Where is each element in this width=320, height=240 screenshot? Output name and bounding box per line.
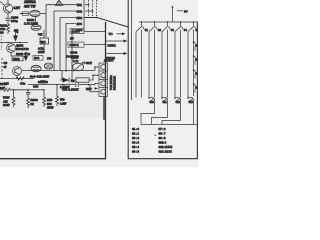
svg-text:7W: 7W: [47, 57, 52, 61]
svg-text:S6 : 5: S6 : 5: [132, 150, 140, 154]
svg-text:REF: REF: [86, 87, 92, 91]
wire: [84, 44, 106, 46]
electrolytic C3 (top view): [31, 65, 41, 71]
switch S13 (bottom row): [187, 97, 189, 99]
svg-text:R869 4.7k: R869 4.7k: [16, 52, 30, 56]
switch S8: [193, 69, 195, 71]
svg-text:9V: 9V: [184, 10, 188, 14]
dashed net line: [92, 0, 94, 18]
wire bus elbow 1: [46, 5, 76, 37]
potentiometer R636: [72, 63, 83, 71]
svg-text:S4 : 3: S4 : 3: [132, 141, 140, 145]
svg-text:1.2/16V: 1.2/16V: [60, 85, 70, 89]
svg-text:2SC1740: 2SC1740: [16, 47, 29, 51]
transistor Q861: [13, 67, 22, 76]
svg-text:S10: S10: [150, 101, 155, 104]
svg-text:S13: S13: [189, 101, 194, 104]
svg-text:ST: ST: [70, 37, 74, 41]
wire resistor row: [0, 78, 34, 80]
dashed net line: [88, 0, 90, 18]
svg-text:1/2W: 1/2W: [47, 106, 54, 110]
svg-text:B861: B861: [13, 57, 20, 61]
svg-text:SeG 4.7k 1/2W: SeG 4.7k 1/2W: [30, 75, 49, 79]
svg-text:240: 240: [4, 82, 9, 86]
svg-text:S2 : 1: S2 : 1: [132, 132, 140, 136]
switch S2: [154, 21, 156, 23]
resistor R58 (vertical): [43, 90, 46, 107]
svg-text:S10: 9: S10: 9: [159, 141, 167, 145]
electrolytic C2 (top view): [31, 25, 41, 31]
switch S1: [141, 21, 143, 23]
wire: [43, 30, 45, 52]
svg-text:R6: R6: [0, 31, 4, 35]
scan tint: [0, 0, 104, 118]
svg-text:270p: 270p: [11, 19, 18, 23]
svg-text:S6: S6: [195, 43, 198, 47]
electrolytic C4 (top view): [44, 63, 52, 69]
dashed net line: [96, 0, 98, 18]
wire cap row: [28, 83, 99, 84]
switch S10 (bottom row): [148, 97, 150, 99]
wire bus elbow 4: [66, 24, 76, 73]
wire: [103, 97, 105, 121]
svg-text:S3 : 2: S3 : 2: [132, 136, 140, 140]
svg-text:DESK: DESK: [108, 44, 116, 48]
wire pot feed: [22, 67, 99, 71]
resistor R861: [76, 78, 89, 82]
svg-text:B84: B84: [34, 56, 39, 60]
wire diode row: [60, 75, 99, 80]
filled arrow (off page): [24, 56, 29, 62]
resistor R640: [0, 88, 12, 91]
switch S11 (bottom row): [161, 97, 163, 99]
top bus: [139, 21, 197, 23]
svg-text:S5 : 4: S5 : 4: [132, 145, 140, 149]
svg-text:VD1: VD1: [77, 3, 83, 7]
switch S5: [193, 21, 195, 23]
svg-text:1/4W: 1/4W: [3, 103, 10, 107]
svg-text:S12: S12: [176, 101, 181, 104]
wire: [20, 13, 46, 15]
svg-text:FROM BAR: FROM BAR: [113, 76, 117, 90]
wire: [84, 31, 106, 33]
svg-text:560: 560: [60, 98, 65, 102]
wire: [11, 53, 17, 79]
capacitor C56: [76, 82, 78, 87]
svg-text:S1: S1: [145, 28, 149, 32]
svg-text:S9 : 8: S9 : 8: [159, 136, 167, 140]
svg-text:S11: S11: [163, 101, 168, 104]
wire: [85, 10, 93, 12]
switch S4: [180, 21, 182, 23]
svg-text:-: -: [155, 134, 156, 137]
svg-text:S12: 12CH: S12: 12CH: [159, 150, 172, 154]
wire: [30, 89, 44, 91]
switch S3: [167, 21, 169, 23]
diode D860: [63, 78, 70, 83]
svg-text:SAFETY: SAFETY: [104, 60, 114, 63]
svg-text:S7 : 6: S7 : 6: [159, 127, 167, 131]
vertical bus line: [83, 0, 85, 32]
svg-text:C885 K: C885 K: [70, 43, 79, 47]
svg-text:1W: 1W: [14, 29, 19, 33]
svg-text:1.2: 1.2: [73, 59, 78, 63]
svg-text:AF4: AF4: [77, 22, 83, 26]
switch S6: [193, 41, 195, 43]
wire: [35, 17, 37, 25]
switch S12 (bottom row): [174, 97, 176, 99]
svg-text:1.2W: 1.2W: [60, 101, 67, 105]
left edge stub: [1, 58, 3, 78]
capacitor C230: [6, 18, 11, 24]
resistor R633 (vertical): [27, 98, 30, 108]
sheet border (left board, right edge and bottom edge): [0, 22, 106, 159]
supply entry wire: [172, 7, 174, 22]
svg-text:TW: TW: [38, 33, 43, 37]
svg-text:S8: S8: [195, 71, 198, 75]
signal arrow FROM: [106, 53, 124, 55]
pin 1: [101, 65, 106, 70]
routing nest line 2: [152, 118, 168, 125]
component stack box: [40, 38, 49, 44]
svg-text:S2: S2: [158, 28, 162, 32]
svg-text:S7: S7: [195, 57, 198, 61]
pin 2: [101, 73, 106, 78]
board edge funnel top: [84, 18, 128, 28]
svg-text:S3: S3: [171, 28, 175, 32]
svg-text:42V 7W: 42V 7W: [24, 4, 35, 8]
switch S7: [193, 55, 195, 57]
routing nest line 3: [162, 121, 181, 125]
svg-text:47: 47: [4, 65, 8, 69]
svg-text:C5: C5: [71, 79, 75, 83]
svg-text:S11: MUTE: S11: MUTE: [159, 145, 173, 149]
svg-text:4.8V: 4.8V: [14, 6, 21, 10]
pin 3: [101, 81, 106, 86]
svg-text:TO: TO: [109, 32, 114, 36]
svg-text:2S1748: 2S1748: [38, 80, 48, 84]
svg-text:H.OUT: H.OUT: [72, 29, 81, 33]
svg-text:SC2: SC2: [77, 9, 83, 13]
wire bus elbow 2: [54, 11, 76, 71]
svg-text:S9: S9: [195, 85, 198, 89]
svg-text:KB3: KB3: [77, 16, 83, 20]
wire bus elbow 3: [60, 18, 76, 71]
svg-text:S1 : 0: S1 : 0: [132, 127, 140, 131]
boxed label: [12, 56, 23, 61]
svg-text:C3x: C3x: [20, 82, 26, 86]
svg-text:FOR EXTRA: FOR EXTRA: [109, 75, 113, 90]
routing nest line 1: [141, 114, 155, 125]
svg-text:C36: C36: [33, 85, 39, 89]
boxed label KEY: [68, 42, 84, 47]
unit inner border: [131, 0, 133, 100]
edge connector P801: [99, 63, 108, 97]
wire: [0, 0, 8, 18]
filled arrow (off page): [13, 36, 18, 42]
warning triangle: [55, 0, 62, 5]
signal arrow DESK: [106, 40, 124, 42]
transistor Q860: [7, 44, 16, 53]
capacitor C861: [26, 93, 30, 95]
transistor Q201: [3, 4, 12, 13]
electrolytic C1 (top view): [30, 10, 40, 16]
boxed label B840: [33, 56, 43, 61]
switch S9: [193, 83, 195, 85]
resistor R641 (vertical): [12, 90, 15, 107]
routing nest outer line: [141, 124, 197, 126]
resistor R860: [16, 77, 24, 80]
wire: [0, 42, 28, 44]
keyboard unit border box: [128, 0, 197, 159]
svg-text:S4: S4: [184, 28, 188, 32]
svg-text:4617: 4617: [86, 61, 93, 65]
wire: [90, 91, 99, 93]
resistor R632: [7, 24, 10, 34]
svg-text:S5: S5: [196, 28, 199, 32]
svg-text:S8 : 7: S8 : 7: [159, 132, 167, 136]
pin 4: [101, 89, 106, 94]
boxed label H.OUT: [70, 29, 84, 34]
legend table: [132, 127, 172, 154]
wire bus elbow 5: [72, 30, 76, 81]
wire: [85, 4, 89, 6]
svg-text:82: 82: [31, 102, 35, 106]
right column bus: [193, 29, 195, 96]
svg-text:R84: R84: [41, 40, 46, 44]
